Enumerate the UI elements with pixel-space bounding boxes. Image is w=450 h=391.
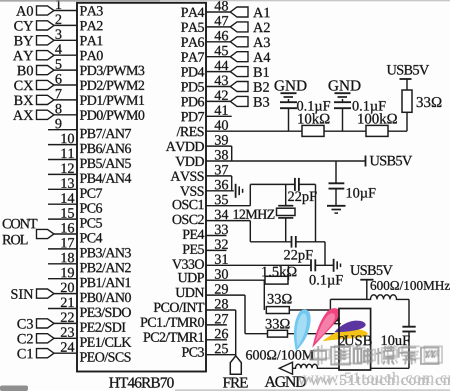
resistor R1 10k on /RES line <box>298 113 329 136</box>
connector FRE (flag up) <box>223 356 248 388</box>
watermark logo feathers <box>294 308 368 351</box>
ground below C3 <box>327 206 346 213</box>
ground at V33O cap <box>334 259 341 272</box>
wire 1.5k to V33O <box>287 265 289 280</box>
wire OSC2 net riser <box>249 221 251 242</box>
power terminal USB5V (reset pullup) <box>387 65 429 79</box>
connector C1 (pin 24) <box>17 349 54 359</box>
wire pin 41 (PD7) <box>181 105 232 121</box>
wire pin 19 (PB1/AN1) <box>48 268 131 287</box>
wire OSC1 top rail <box>250 183 295 185</box>
wire pin 3 (PA1) <box>54 29 102 45</box>
scan artifact top edge <box>0 0 450 2</box>
wire pin 39 (AVDD) <box>166 135 232 151</box>
wire pin 4 (PA0) <box>54 44 103 60</box>
wire UDN drop <box>245 295 268 334</box>
resistor R6 33ohm (D-) <box>266 319 290 337</box>
wire pin 42 (PD6) <box>181 90 230 106</box>
wire pin 31 (V33O) <box>172 254 311 269</box>
USB connector J1 body <box>334 309 371 371</box>
wire pin 48 (PA4) <box>181 1 230 17</box>
wire OSC1 net riser <box>249 184 251 205</box>
power terminal USB5V (VDD) <box>366 156 413 167</box>
wire pin 45 (PA7) <box>181 46 230 62</box>
connector BY (pin 3) <box>14 36 54 46</box>
wire pin 30 (UDP) <box>178 269 265 282</box>
ground at VSS pin 36 <box>236 184 243 198</box>
connector A3 (pin 46) <box>230 37 270 47</box>
wire osc ground drop <box>324 242 326 265</box>
capacitor C5 22pF (OSC2) <box>284 236 325 263</box>
ground GND2 above C2 <box>329 80 361 97</box>
connector A0 (pin 1) <box>16 6 54 16</box>
wire VBUS into connector <box>330 299 366 320</box>
inductor L2 600ohm ferrite bead (AGND) <box>293 364 340 368</box>
wire pin 21 (PE3/SDO) <box>48 298 131 317</box>
wire PCO/INT to FRE <box>235 310 237 356</box>
wire pin 2 (PA2) <box>54 14 103 30</box>
wire pin 43 (PD5) <box>181 76 230 92</box>
resistor R2 100k on /RES line <box>358 113 397 136</box>
wire pin 8 (PD0/PWM0) <box>54 104 144 120</box>
connector C3 (pin 22) <box>17 319 54 329</box>
capacitor C1 0.1uF on /RES line <box>280 99 297 131</box>
connector SIN (pin 20) <box>11 289 54 299</box>
wire pin 33 (PE4) <box>183 225 228 239</box>
wire pin 15 (PC5) <box>48 208 102 227</box>
wire pin 44 (PD4) <box>181 61 230 77</box>
wire pin 27 (PC1./TMR0) <box>140 314 228 327</box>
resistor R4 1.5kohm UDP pullup <box>262 266 296 284</box>
IC U1 part number label <box>109 377 174 387</box>
wire USB5V drop <box>366 280 368 300</box>
wire pin 26 (PC2/TMR1) <box>143 329 228 342</box>
connector B0 (pin 5) <box>17 66 54 76</box>
wire D+ to USB connector <box>289 309 339 311</box>
wire pin 47 (PA5) <box>181 16 230 32</box>
wire pin 34 (OSC2) <box>172 210 250 224</box>
connector AX (pin 8) <box>13 110 54 120</box>
wire pin 32 (PE5) <box>183 239 228 253</box>
wire pin 10 (PB6/AN6) <box>48 134 131 153</box>
wire pin 35 (OSC1) <box>172 195 250 209</box>
wire pin 29 (UDN) <box>176 284 245 297</box>
wire pin 36 (VSS) <box>180 180 234 196</box>
label 600ohm/100MHz (VBUS bead) <box>371 281 450 290</box>
capacitor C7 10uF (VBUS) <box>382 299 416 368</box>
label 0.1uF C1 <box>297 101 330 114</box>
wire pin 9 (PB7/AN7) <box>48 119 131 138</box>
wire pin 6 (PD2/PWM2) <box>54 74 144 90</box>
wire pin 40 (/RES) <box>177 120 407 136</box>
connector B2 (pin 43) <box>230 82 269 92</box>
wire pin 16 (PC4) <box>54 223 102 242</box>
power terminal USB5V (VBUS) <box>350 265 392 279</box>
wire pin 11 (PB5/AN5) <box>48 149 131 168</box>
connector B3 (pin 42) <box>230 96 269 106</box>
label 600ohm/100M (AGND bead) <box>246 350 314 359</box>
inductor L1 600ohm ferrite bead (VBUS) <box>367 295 409 300</box>
connector AGND arrow <box>265 362 306 387</box>
wire D- to USB connector <box>288 333 340 335</box>
wire pin 25 (PC3) <box>182 344 236 357</box>
wire pin 23 (PE1/CLK) <box>54 327 131 346</box>
wire pin 17 (PB3/AN3) <box>48 238 131 257</box>
capacitor C4 22pF (OSC1) <box>288 178 316 204</box>
capacitor C3 10uF on VDD <box>329 161 376 206</box>
wire pin 20 (PB0/AN0) <box>54 283 131 302</box>
label 0.1uF C2 <box>353 101 386 114</box>
watermark text line 2 (url) <box>298 372 450 385</box>
wire pin 22 (PE2/SDI) <box>54 312 125 331</box>
connector C2 (pin 23) <box>17 334 54 344</box>
wire pin 7 (PD1/PWM1) <box>54 89 144 105</box>
connector CONTROL (pin 16) <box>2 219 54 245</box>
wire C7 to AGND rail <box>371 367 409 369</box>
resistor R3 33ohm to USB5V <box>402 79 441 131</box>
wire pin 18 (PB2/AN2) <box>48 253 131 272</box>
wire pin 46 (PA6) <box>181 31 230 47</box>
wire pin 5 (PD3/PWM3) <box>54 59 144 75</box>
capacitor C2 0.1uF on /RES line <box>334 99 351 131</box>
watermark text line 1 (site name) <box>310 345 442 366</box>
wire AVDD to VDD tie <box>231 146 233 161</box>
wire pin 12 (PB4/AN4) <box>48 163 131 182</box>
crystal X1 12MHz <box>277 184 296 241</box>
scan artifact bottom-left smudge <box>0 386 28 391</box>
wire pin 24 (PEO/SCS) <box>54 342 131 361</box>
connector B1 (pin 44) <box>230 67 269 77</box>
wire pin 1 (PA3) <box>54 0 103 16</box>
wire AVSS to VSS tie <box>231 176 233 191</box>
connector CY (pin 2) <box>14 21 54 31</box>
wire pin 38 (VDD) <box>175 150 365 166</box>
resistor R5 33ohm (D+) <box>266 294 291 314</box>
label 12MHZ <box>234 210 275 219</box>
connector CX (pin 6) <box>14 80 54 90</box>
op IC U1 HT46RB70 body <box>77 3 206 372</box>
scan artifact bottom edge <box>175 389 450 391</box>
connector BX (pin 7) <box>14 95 54 105</box>
ground GND1 above C1 <box>275 80 307 97</box>
wire pin 13 (PC7) <box>48 178 102 197</box>
wire UDP drop <box>263 280 265 310</box>
wire pin 28 (PCO/INT) <box>154 299 236 312</box>
connector AY (pin 4) <box>13 51 54 61</box>
wire OSC2 bottom rail <box>250 241 291 243</box>
wire 22pF C4 to ground riser <box>315 184 317 241</box>
connector A4 (pin 45) <box>230 52 270 62</box>
connector A1 (pin 48) <box>230 7 269 17</box>
capacitor C6 0.1uF on V33O <box>310 259 343 287</box>
wire pin 14 (PC6) <box>48 193 102 212</box>
connector A2 (pin 47) <box>230 22 269 32</box>
wire pin 37 (AVSS) <box>170 165 231 181</box>
